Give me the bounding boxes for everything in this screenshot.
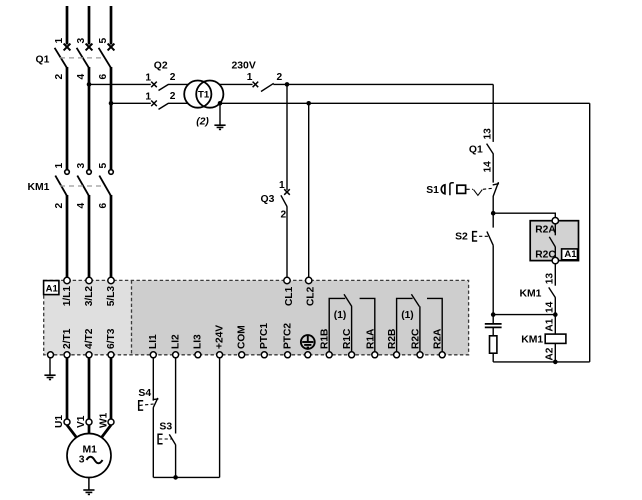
wire LI2 down [175, 358, 177, 434]
node tap L2 to Q2 [87, 82, 92, 87]
wire L2 KM1 to starter [88, 195, 91, 277]
soft starter internal dashed divider [131, 280, 133, 354]
relay R1 changeover contact [329, 294, 375, 352]
node CL1 tap [285, 82, 290, 87]
wire T2 to motor V1 [88, 358, 91, 419]
breaker Q2 upper contact [151, 82, 188, 91]
svg-text:1: 1 [145, 91, 151, 102]
svg-text:W1: W1 [99, 412, 110, 428]
terminal LI2 [173, 352, 179, 358]
relay box R2 (R2A/R2C) [530, 221, 578, 261]
terminal R1A [372, 352, 378, 358]
wire W1 to motor [102, 425, 112, 438]
terminal 4/T2 [86, 352, 92, 358]
terminal earth (bottom far left) [48, 352, 54, 358]
circuit breaker Q1 pole 3 [99, 44, 115, 68]
wire 230V feed down to Q1 aux [492, 84, 494, 141]
resistor R (snubber) [492, 327, 494, 335]
wire KM1 aux to node [554, 297, 556, 314]
wire LI1 down [152, 358, 154, 401]
svg-text:S2: S2 [455, 232, 468, 243]
wire phase L2 incoming [88, 6, 91, 45]
wire coil A2 to bottom rail [554, 343, 556, 362]
actuator E of S4 [139, 401, 144, 410]
svg-text:5: 5 [98, 163, 109, 169]
ground at starter left [49, 358, 51, 375]
breaker Q2 lower contact [151, 101, 188, 110]
terminal R2A box top [552, 218, 558, 224]
soft starter A1 dashed border [44, 280, 469, 354]
svg-text:5/L3: 5/L3 [106, 286, 117, 307]
terminal W1 [108, 419, 114, 425]
contactor KM1 pole 3 [99, 170, 113, 196]
contactor KM1 pole 1 (fixed contact circle + blade) [55, 170, 69, 196]
svg-text:3: 3 [76, 163, 87, 169]
wire bottom rail S3/S4 [153, 476, 219, 478]
auxiliary contact KM1 13-14 [549, 287, 556, 297]
terminal R1B [326, 352, 332, 358]
emergency stop S1 (NC contact with latch) [493, 182, 499, 196]
wire +24V down [219, 358, 221, 478]
terminal 3/L2 [86, 277, 92, 283]
Q1 mechanical linkage (dashed) [60, 57, 105, 59]
wire T1 secondary upper [219, 83, 252, 85]
svg-text:230V: 230V [232, 61, 256, 72]
motor M1 [67, 434, 111, 478]
svg-text:2: 2 [54, 74, 65, 80]
wire L1 KM1 to starter [66, 195, 69, 277]
node CL2 tap [306, 101, 311, 106]
wire T3 to motor W1 [110, 358, 113, 419]
terminal PTC2 [285, 352, 291, 358]
node coil top junction [553, 312, 558, 317]
svg-text:LI2: LI2 [170, 334, 181, 349]
svg-text:CL1: CL1 [284, 286, 295, 306]
svg-text:6/T3: 6/T3 [106, 328, 117, 349]
svg-text:LI1: LI1 [148, 334, 159, 349]
svg-text:PTC1: PTC1 [259, 323, 270, 349]
wire L1 Q1 to KM1 [66, 67, 69, 170]
svg-text:CL2: CL2 [306, 286, 317, 306]
wire S1 to junction [492, 196, 494, 228]
svg-text:1: 1 [279, 180, 285, 191]
terminal CL1 [284, 277, 290, 283]
S1 mushroom head symbol [441, 185, 445, 194]
svg-text:A1: A1 [46, 283, 59, 294]
wire CL2 vertical [308, 103, 310, 277]
actuator E of S2 [473, 232, 478, 241]
svg-text:2/T1: 2/T1 [62, 328, 73, 349]
wire junction to R2A box [493, 213, 555, 217]
svg-text:S4: S4 [138, 388, 151, 399]
terminal R1C [349, 352, 355, 358]
wire junction to coil branch [493, 314, 555, 316]
terminal 1/L1 [64, 277, 70, 283]
terminal 2/T1 [64, 352, 70, 358]
S1 latch stem symbol [450, 183, 454, 196]
wire motor to ground [88, 477, 90, 490]
terminal earth symbol (circle with ground) [305, 352, 311, 358]
svg-text:COM: COM [236, 325, 247, 349]
svg-text:KM1: KM1 [520, 288, 542, 299]
svg-text:4/T2: 4/T2 [84, 328, 95, 349]
wire L3 tap to Q2 lower [111, 102, 151, 104]
wire U1 to motor [67, 425, 77, 438]
switch 230V [253, 82, 494, 92]
circuit breaker Q1 pole 1 (X contact + blade) [55, 44, 71, 68]
wire T1 secondary lower [220, 102, 590, 104]
node tap L3 to Q2 [109, 101, 114, 106]
capacitor C (snubber) [492, 315, 494, 324]
svg-text:6: 6 [98, 203, 109, 209]
S1 latch square symbol [457, 185, 466, 193]
svg-text:PTC2: PTC2 [282, 323, 293, 349]
svg-text:1/L1: 1/L1 [62, 286, 73, 307]
soft starter A1 body (power section fill) [44, 280, 132, 354]
terminal 5/L3 [108, 277, 114, 283]
node RC branch junction [491, 312, 496, 317]
switch S4 (NC contact) [153, 398, 159, 408]
wire bottom rail (right control) [493, 361, 590, 363]
svg-text:LI3: LI3 [193, 334, 204, 349]
wire L3 KM1 to starter [110, 195, 113, 277]
terminal R2B [394, 352, 400, 358]
svg-text:R2A: R2A [535, 224, 556, 235]
svg-text:2: 2 [170, 91, 176, 102]
svg-text:KM1: KM1 [521, 335, 543, 346]
node LI2 rail junction [173, 475, 178, 480]
wire ground stem [219, 103, 221, 125]
wire resistor to bottom rail [492, 353, 494, 362]
wire CL1 upper segment [286, 84, 288, 190]
terminal PTC1 [261, 352, 267, 358]
terminal +24V [217, 352, 223, 358]
disconnect Q3 (X contact + blade) [281, 189, 290, 206]
svg-text:V1: V1 [76, 415, 87, 428]
svg-text:Q1: Q1 [36, 55, 50, 66]
terminal R2C [417, 352, 423, 358]
svg-text:2: 2 [54, 203, 65, 209]
ground under T1 [214, 125, 225, 129]
svg-text:(1): (1) [401, 310, 413, 321]
svg-text:3/L2: 3/L2 [84, 286, 95, 307]
wire R2C to KM1 aux [554, 264, 556, 286]
terminal V1 [86, 419, 92, 425]
contactor KM1 pole 2 [77, 170, 91, 196]
wire LI2 lower [175, 445, 177, 478]
label A1 (starter designator box) [44, 281, 59, 295]
svg-text:Q1: Q1 [469, 144, 483, 155]
wire V1 to motor [88, 425, 91, 434]
soft starter A1 body (control section fill) [132, 280, 469, 354]
terminal R2A box bottom [552, 257, 558, 263]
switch S3 (NO contact) [169, 434, 175, 444]
wire Q1 aux to S1 [492, 154, 494, 183]
S1 actuator dashed link with detent V [467, 188, 493, 195]
svg-text:U1: U1 [54, 415, 65, 428]
coil KM1 [545, 334, 566, 343]
svg-text:14: 14 [545, 301, 556, 313]
terminal COM [239, 352, 245, 358]
svg-text:A2: A2 [545, 347, 556, 360]
svg-text:Q3: Q3 [261, 194, 275, 205]
circuit breaker Q1 pole 2 [77, 44, 93, 68]
svg-text:4: 4 [76, 203, 87, 209]
svg-text:1: 1 [145, 73, 151, 84]
svg-text:3: 3 [79, 454, 85, 465]
actuator E of S3 [158, 434, 163, 443]
svg-text:M1: M1 [83, 445, 98, 456]
start button S2 (NO contact) [487, 232, 493, 246]
svg-text:(2): (2) [196, 117, 209, 128]
KM1 mechanical linkage (dashed) [60, 185, 105, 187]
wire L3 Q1 to KM1 [110, 67, 113, 170]
svg-text:13: 13 [545, 273, 556, 285]
auxiliary contact Q1 13-14 [487, 144, 494, 154]
wire LI1 lower [152, 408, 154, 478]
svg-text:S1: S1 [426, 185, 439, 196]
terminal U1 [64, 419, 70, 425]
svg-text:(1): (1) [334, 310, 346, 321]
svg-text:T1: T1 [198, 89, 210, 100]
wire S2 to lower junction [492, 245, 494, 314]
wire phase L1 incoming [66, 6, 69, 45]
svg-text:1: 1 [247, 72, 253, 83]
wire L2 tap to Q2 upper [89, 83, 151, 85]
ground motor [83, 490, 94, 494]
svg-text:2: 2 [277, 72, 283, 83]
svg-text:1: 1 [54, 37, 65, 43]
terminal CL2 [306, 277, 312, 283]
svg-text:Q2: Q2 [154, 61, 168, 72]
svg-text:A1: A1 [545, 318, 556, 331]
wire phase L3 incoming [110, 6, 113, 45]
svg-text:13: 13 [482, 128, 493, 140]
terminal 6/T3 [108, 352, 114, 358]
svg-text:3: 3 [76, 38, 87, 44]
relay R2 changeover contact [397, 294, 443, 352]
svg-text:2: 2 [281, 209, 287, 220]
terminal LI1 [150, 352, 156, 358]
node T1 ground tap [218, 101, 223, 106]
svg-text:6: 6 [98, 74, 109, 80]
relay R2A-R2C contact inside box [549, 224, 555, 258]
transformer T1 [184, 81, 223, 108]
wire CL1 lower segment [286, 206, 288, 277]
svg-text:+24V: +24V [214, 325, 225, 349]
svg-text:14: 14 [482, 161, 493, 173]
node S1/S2/R2A junction [491, 211, 496, 216]
svg-text:1: 1 [54, 163, 65, 169]
svg-text:4: 4 [76, 74, 87, 80]
svg-text:2: 2 [170, 72, 176, 83]
wire node to coil A1 [554, 315, 556, 335]
svg-text:A1: A1 [564, 249, 577, 260]
wire far right return [589, 103, 591, 362]
wire T1 to motor U1 [66, 358, 69, 419]
terminal LI3 [195, 352, 201, 358]
svg-text:S3: S3 [159, 422, 172, 433]
wire L2 Q1 to KM1 [88, 67, 91, 170]
terminal R2A [439, 352, 445, 358]
svg-text:KM1: KM1 [28, 182, 50, 193]
svg-text:5: 5 [98, 38, 109, 44]
label A1 (in relay box) [562, 249, 578, 260]
node coil bottom junction [553, 360, 558, 365]
